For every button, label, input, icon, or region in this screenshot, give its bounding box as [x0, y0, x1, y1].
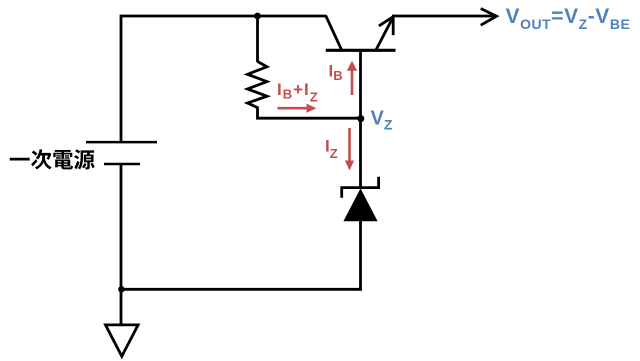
transistor Q1 collector [326, 15, 342, 50]
svg-text:VZ: VZ [371, 108, 393, 133]
node VZ junction dot [357, 115, 364, 122]
wire: battery negative lead down to ground [120, 164, 123, 325]
wire: output to VOUT [392, 15, 495, 18]
wire: resistor bottom lead to node VZ [258, 107, 362, 119]
wire: zener bottom lead [359, 220, 362, 291]
transistor Q1 base bar [326, 49, 396, 52]
transistor Q1 emitter arrowhead [379, 17, 393, 35]
output arrowhead [481, 9, 497, 26]
svg-text:IZ: IZ [325, 137, 338, 162]
arrow IZ (down) [345, 128, 354, 171]
wire: base lead / zener top lead [359, 51, 362, 188]
battery plate (+) long [86, 141, 157, 144]
arrow IB+IZ (right) [278, 104, 317, 113]
ground symbol [106, 325, 139, 356]
char 次 [31, 149, 51, 169]
svg-text:IB: IB [329, 62, 343, 84]
zener diode D1 anode triangle [343, 188, 377, 221]
wire: bottom rail [121, 288, 361, 291]
label 一次電源 (primary supply) [10, 149, 95, 169]
battery plate (-) short [104, 163, 140, 166]
svg-text:IB+IZ: IB+IZ [277, 80, 319, 105]
wire: resistor top lead [256, 16, 259, 62]
svg-text:VOUT=VZ-VBE: VOUT=VZ-VBE [506, 5, 631, 32]
transistor Q1 emitter [376, 17, 393, 50]
wire: top rail from battery to collector [121, 16, 326, 143]
char 源 [74, 149, 95, 169]
zener diode D1 cathode bar with wings [342, 177, 379, 198]
char 一 [10, 158, 30, 161]
arrow IB (up) [347, 61, 357, 95]
node junction dot at top rail / resistor [254, 13, 261, 20]
node junction dot bottom rail [118, 286, 124, 292]
resistor R (zigzag) [248, 62, 268, 108]
char 電 [53, 150, 73, 169]
